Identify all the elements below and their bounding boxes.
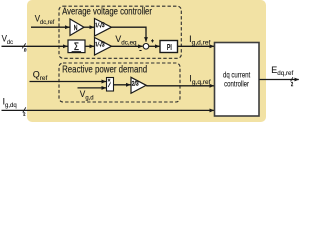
block divider x/y [107,78,114,92]
svg-text:N: N [74,24,78,32]
block dq current controller [215,43,260,117]
gain 1/sqrt3 (top) [95,19,112,37]
wire Vg,d -> divider [78,87,107,89]
svg-text:2/3: 2/3 [132,81,139,88]
plus sign at summing junction [151,39,154,42]
dashed box: Reactive power demand [59,63,180,102]
wire Qref -> divider [30,81,107,83]
summing junction circle [143,44,149,50]
svg-text:3: 3 [102,23,105,30]
svg-text:controller: controller [224,79,249,89]
wire PI -> dq current controller (Ig,d,ref) [178,45,215,47]
svg-text:Edq,ref: Edq,ref [271,65,293,77]
svg-text:Average voltage controller: Average voltage controller [62,6,152,17]
wire summing junction -> PI [149,45,160,47]
wire sigma -> 1/sqrt3 bottom [85,45,94,47]
wire Edq,ref output [259,79,299,81]
svg-text:PI: PI [167,44,172,52]
svg-text:Reactive power demand: Reactive power demand [62,64,147,75]
svg-text:Vdc: Vdc [2,33,13,46]
bus slash 2 on Edq,ref wire [291,77,294,87]
wire divider -> gain 2/3 [114,84,131,86]
block sigma (sum) [68,40,85,54]
dashed box: Average voltage controller [59,6,181,58]
wire N -> 1/sqrt3 top [84,26,94,28]
gain 1/sqrt3 (bottom) [95,38,112,56]
gain 2/3 [131,77,146,93]
bus slash 2 on Ig,dq wire [23,107,26,116]
svg-text:Ig,dq: Ig,dq [3,96,18,109]
gain N [70,19,84,36]
svg-text:2: 2 [23,111,26,117]
svg-text:n: n [24,47,27,54]
wire 1/sqrt3 bottom -> summing junction [112,45,143,47]
block PI [160,41,178,53]
wire Vdc -> sigma [2,45,68,47]
minus sign [139,50,141,52]
wire 2/3 -> dq current controller (Ig,q,ref) [146,85,214,87]
wire Ig,dq -> dq current controller [2,109,215,111]
background panel (yellow) [27,0,266,122]
wire Vdc,ref -> N [31,26,70,28]
svg-text:3: 3 [102,42,105,49]
wire 1/sqrt3 top -> summing junction (feedback) [112,27,147,41]
svg-text:2: 2 [291,81,294,87]
bus slash n on Vdc wire [22,43,26,53]
